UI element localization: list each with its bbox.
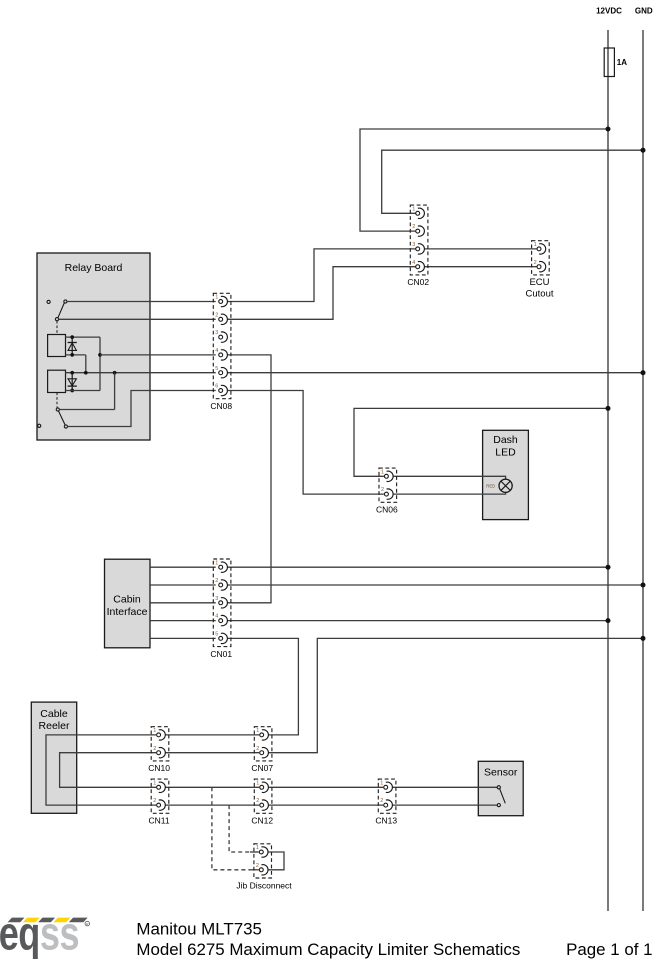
svg-text:1: 1 — [153, 780, 156, 786]
svg-text:12VDC: 12VDC — [596, 7, 622, 16]
wire CN08 pin4 to CN01 pin3 — [227, 355, 271, 603]
svg-text:Relay Board: Relay Board — [65, 262, 123, 274]
svg-text:CN11: CN11 — [149, 816, 170, 826]
svg-text:CN01: CN01 — [210, 649, 232, 659]
connector CN12 — [254, 779, 272, 813]
CN01 pin 5 — [215, 632, 227, 644]
CN02 pin 4 — [412, 260, 424, 272]
svg-text:1: 1 — [153, 728, 156, 734]
CN08 pin 5 — [215, 366, 227, 378]
connector Jib Disconnect — [254, 844, 272, 878]
wire GND rail to CN07 pin2 — [268, 638, 643, 752]
CN06 pin 2 — [381, 487, 393, 499]
wire CN10 pin1 to CN07 pin1 — [165, 734, 259, 736]
svg-text:CN08: CN08 — [210, 401, 232, 411]
svg-text:3: 3 — [215, 330, 218, 336]
svg-text:2: 2 — [256, 798, 259, 804]
svg-text:CN06: CN06 — [376, 505, 398, 515]
connector CN10 — [151, 727, 169, 761]
wire coil K1 top to node A — [66, 336, 101, 338]
svg-text:4: 4 — [215, 614, 218, 620]
CN08 pin 4 — [215, 348, 227, 360]
svg-text:4: 4 — [412, 260, 415, 266]
svg-text:LED: LED — [495, 447, 516, 459]
svg-text:2: 2 — [256, 863, 259, 869]
svg-text:Jib Disconnect: Jib Disconnect — [236, 880, 292, 890]
CN07 pin 2 — [256, 746, 268, 758]
Cable Reeler box — [31, 702, 76, 813]
svg-text:Cabin: Cabin — [113, 594, 141, 606]
wire Cabin Interface to CN01 pin2 — [150, 584, 216, 586]
svg-text:6: 6 — [215, 384, 218, 390]
svg-text:Cable: Cable — [40, 708, 68, 720]
junction Dash LED on 12VDC rail — [606, 406, 611, 411]
relay K1 NC contact — [47, 300, 50, 303]
Dash LED box — [483, 430, 529, 519]
CN12 pin 1 — [256, 780, 268, 792]
svg-text:1: 1 — [256, 845, 259, 851]
wire K2 common — [59, 409, 114, 411]
svg-text:RED: RED — [486, 484, 495, 489]
CN08 pin 3 — [215, 330, 227, 342]
CN07 pin 1 — [256, 728, 268, 740]
wire node A vertical — [99, 337, 101, 390]
CN10 pin 1 — [153, 728, 165, 740]
junction on 12VDC rail — [606, 127, 611, 132]
junction diode D1 cathode — [70, 353, 74, 357]
relay K1 common contact — [55, 318, 58, 321]
svg-text:1: 1 — [381, 469, 384, 475]
lamp RED indicator — [486, 479, 512, 492]
connector CN08 — [213, 293, 231, 398]
svg-text:4: 4 — [215, 348, 218, 354]
wire CN13 pin2 to Sensor — [392, 804, 497, 806]
svg-text:1: 1 — [256, 728, 259, 734]
wire stub Jib pin1 — [250, 851, 259, 853]
registered trademark symbol — [85, 921, 90, 926]
svg-text:Manitou MLT735: Manitou MLT735 — [136, 920, 262, 939]
junction switch K2 tap — [113, 371, 117, 375]
wire net B to switch K2 — [114, 373, 116, 410]
connector CN11 — [151, 779, 169, 813]
dashed tap CN11-CN12 row2 to Jib pin1 — [229, 805, 250, 852]
wire K2 top rail to CN08 pin5 — [66, 372, 216, 374]
svg-text:GND: GND — [635, 7, 653, 16]
svg-text:Reeler: Reeler — [39, 720, 70, 732]
connector CN13 — [378, 779, 396, 813]
junction CN01 pin4 on 12VDC rail — [606, 618, 611, 623]
wire CN10 pin2 to CN07 pin2 — [165, 752, 259, 754]
wire CN11 pin1 to CN12 pin1 — [165, 786, 259, 788]
diode D1 — [68, 337, 77, 355]
connector CN02 — [410, 205, 428, 275]
CN08 pin 6 — [215, 384, 227, 396]
CN08 pin 1 — [215, 295, 227, 307]
ECU Cutout pin 1 — [534, 242, 546, 254]
Sensor box — [478, 761, 523, 815]
junction diode D2 top — [70, 371, 74, 375]
svg-text:2: 2 — [381, 487, 384, 493]
svg-text:1: 1 — [380, 780, 383, 786]
svg-text:5: 5 — [215, 632, 218, 638]
fuse F1 1A — [604, 48, 614, 77]
svg-text:R: R — [86, 922, 89, 926]
wire CN02 pin3 to ECU Cutout pin1 — [425, 248, 537, 250]
wire CN08 pin1 to CN02 pin3 — [227, 249, 415, 302]
wire CN01 pin4 to 12VDC rail — [227, 620, 608, 622]
wire CN12 pin2 to CN13 pin2 — [268, 804, 383, 806]
wire 12VDC rail to CN06 pin1 — [354, 408, 608, 476]
CN02 pin 2 — [412, 224, 424, 236]
wire stub Jib pin2 — [250, 869, 259, 871]
CN12 pin 2 — [256, 798, 268, 810]
svg-text:Interface: Interface — [107, 606, 148, 618]
svg-text:1: 1 — [215, 560, 218, 566]
junction CN07 pin2 on GND rail — [641, 636, 646, 641]
wire CN08 pin5 to GND rail — [227, 372, 643, 374]
junction diode D1 anode — [70, 335, 74, 339]
CN08 pin 2 — [215, 312, 227, 324]
wire GND to CN02 pin1 — [382, 150, 643, 213]
wire Cabin Interface to CN01 pin4 — [150, 620, 216, 622]
wire Jib Disconnect shorting link — [268, 852, 284, 870]
CN11 pin 1 — [153, 780, 165, 792]
svg-text:CN13: CN13 — [375, 816, 397, 826]
svg-text:Model 6275 Maximum Capacity Li: Model 6275 Maximum Capacity Limiter Sche… — [136, 940, 520, 959]
wire coil K1 bottom — [66, 354, 86, 356]
svg-text:2: 2 — [534, 260, 537, 266]
CN01 pin 2 — [215, 578, 227, 590]
svg-text:5: 5 — [215, 366, 218, 372]
wire CN06 pin1 to lamp — [393, 476, 506, 479]
CN02 pin 1 — [412, 206, 424, 218]
connector ECU Cutout — [532, 241, 550, 275]
junction K1-K2 link — [84, 371, 88, 375]
wire node A to CN08 pin4 — [100, 354, 216, 356]
wire CN06 pin2 to lamp — [393, 492, 506, 494]
Jib Disconnect pin 1 — [256, 845, 268, 857]
relay coil K2 — [48, 370, 66, 392]
svg-text:1: 1 — [534, 242, 537, 248]
12VDC power rail — [607, 30, 609, 911]
wire CN13 pin1 to Sensor — [392, 786, 497, 788]
svg-text:3: 3 — [412, 242, 415, 248]
sensor switch arm — [500, 789, 506, 804]
Jib Disconnect pin 2 — [256, 863, 268, 875]
svg-text:2: 2 — [153, 798, 156, 804]
dashed tap CN11-CN12 row1 to Jib pin2 — [212, 787, 250, 870]
relay K2 NC contact — [38, 424, 41, 427]
svg-text:2: 2 — [256, 746, 259, 752]
svg-text:2: 2 — [380, 798, 383, 804]
Relay Board box — [37, 253, 150, 440]
CN01 pin 4 — [215, 614, 227, 626]
wire Cable Reeler loop CN10 pin1 to CN11 pin2 — [46, 735, 156, 805]
wire K1 NO to CN08 pin1 — [67, 301, 216, 303]
wire CN01 pin1 to 12VDC rail — [227, 566, 608, 568]
junction CN01 pin2 on GND rail — [641, 583, 646, 588]
svg-text:eqss: eqss — [0, 907, 79, 959]
wire Cabin Interface to CN01 pin1 — [150, 566, 216, 568]
wire CN08 pin2 to CN02 pin4 — [227, 267, 415, 320]
relay coil K1 — [48, 335, 66, 357]
connector CN06 — [379, 468, 397, 502]
wire CN12 pin1 to CN13 pin1 — [268, 786, 383, 788]
eqss logo stripes — [8, 918, 88, 923]
svg-text:3: 3 — [215, 596, 218, 602]
relay K2 switch arm — [59, 411, 66, 425]
connector CN01 — [213, 559, 231, 647]
svg-text:2: 2 — [215, 578, 218, 584]
CN01 pin 3 — [215, 596, 227, 608]
wire CN01 pin2 to GND rail — [227, 584, 643, 586]
GND power rail — [642, 30, 644, 911]
svg-text:CN02: CN02 — [407, 277, 429, 287]
svg-text:2: 2 — [412, 224, 415, 230]
junction on GND rail — [641, 148, 646, 153]
CN11 pin 2 — [153, 798, 165, 810]
CN13 pin 2 — [380, 798, 392, 810]
wire Cabin Interface to CN01 pin5 — [150, 637, 216, 639]
wire CN08 pin6 to CN06 pin2 — [227, 391, 384, 495]
K2 actuator dashed link — [56, 393, 58, 408]
relay K2 common contact — [56, 408, 59, 411]
connector CN07 — [254, 727, 272, 761]
CN01 pin 1 — [215, 560, 227, 572]
relay K1 switch arm — [58, 303, 64, 318]
svg-text:2: 2 — [153, 746, 156, 752]
relay K2 NO contact — [64, 425, 67, 428]
wire CN01 pin5 to CN07 pin1 — [227, 638, 298, 735]
CN06 pin 1 — [381, 469, 393, 481]
junction node A to CN08 pin4 — [98, 353, 102, 357]
wire K2 bottom rail — [66, 390, 101, 392]
Cabin Interface box — [105, 559, 151, 648]
wire Cabin Interface to CN01 pin3 — [150, 602, 216, 604]
CN13 pin 1 — [380, 780, 392, 792]
CN10 pin 2 — [153, 746, 165, 758]
diode D2 — [68, 373, 77, 391]
svg-text:CN10: CN10 — [148, 763, 170, 773]
svg-text:1A: 1A — [617, 58, 627, 67]
svg-text:2: 2 — [215, 312, 218, 318]
svg-text:Dash: Dash — [493, 434, 518, 446]
K1 actuator dashed link — [56, 321, 58, 335]
wire 12VDC to CN02 pin2 — [360, 129, 608, 231]
relay K1 NO contact — [64, 300, 67, 303]
svg-text:Page 1 of 1: Page 1 of 1 — [566, 940, 652, 959]
wire CN02 pin4 to ECU Cutout pin2 — [425, 266, 537, 268]
sensor switch top contact — [497, 786, 500, 789]
junction diode D2 bottom — [70, 389, 74, 393]
sensor switch bottom contact — [497, 804, 500, 807]
svg-text:1: 1 — [215, 295, 218, 301]
svg-text:Cutout: Cutout — [526, 289, 554, 300]
svg-text:1: 1 — [256, 780, 259, 786]
svg-text:CN07: CN07 — [251, 763, 273, 773]
junction CN01 pin1 on 12VDC rail — [606, 565, 611, 570]
svg-text:Sensor: Sensor — [484, 766, 518, 778]
svg-text:1: 1 — [412, 206, 415, 212]
wire K1 common to CN08 pin2 — [59, 318, 216, 320]
wire K1 bottom to K2 top — [85, 355, 87, 373]
wire K2 NO to CN08 pin6 — [68, 391, 216, 427]
wire Cable Reeler loop CN10 pin2 to CN11 pin1 — [60, 753, 157, 788]
svg-text:ECU: ECU — [529, 277, 549, 288]
ECU Cutout pin 2 — [534, 260, 546, 272]
svg-text:CN12: CN12 — [251, 816, 273, 826]
wire CN11 pin2 to CN12 pin2 — [165, 804, 259, 806]
CN02 pin 3 — [412, 242, 424, 254]
junction CN08 pin5 on GND rail — [641, 370, 646, 375]
